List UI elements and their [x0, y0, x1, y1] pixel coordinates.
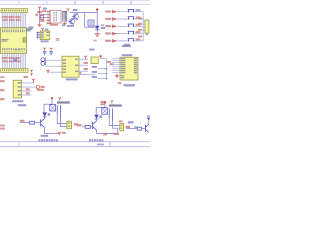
gnd red text — [62, 132, 66, 134]
J2 wire pin4 — [22, 94, 32, 96]
D8 to Q4 wire — [96, 119, 98, 121]
resistor pack U3 box — [91, 57, 98, 64]
connector J2 serial header — [13, 80, 21, 98]
D7 to Q3 wire — [44, 117, 46, 119]
U5 designator below — [41, 40, 49, 42]
relay K7 coil box — [102, 108, 108, 114]
title block tick H — [109, 142, 111, 147]
Q4 emitter wire — [95, 130, 97, 134]
transistor Q2 — [69, 19, 74, 24]
buzzer top wire — [77, 12, 97, 14]
diode D8 — [94, 115, 99, 119]
ground buzzer — [94, 34, 100, 36]
key bus vertical wire — [142, 12, 144, 41]
keys designator text — [124, 44, 130, 46]
ground Q3 emitter — [57, 132, 61, 134]
U1 top pin numbers — [2, 28, 24, 29]
VCC arrow K7 — [111, 100, 114, 103]
K7 type text — [109, 104, 122, 106]
key K4 — [128, 31, 135, 33]
U5 pin names — [41, 32, 49, 38]
U2 wire in 1 — [45, 59, 62, 61]
crystal Y1 circle B — [41, 62, 45, 66]
K7 contact wire bend 1 — [109, 117, 120, 125]
LED D2 row — [105, 17, 127, 20]
R2 to Q3 wire — [35, 122, 41, 124]
D6 label text — [101, 24, 104, 26]
net label P1 left edge — [0, 76, 5, 78]
crystal connect wire — [44, 57, 46, 65]
VCC arrow above U5 — [41, 28, 44, 31]
module label cropped — [18, 104, 26, 106]
J5 red text below — [113, 133, 119, 135]
VCC dot relay K7 — [104, 101, 106, 103]
K6 vcc wire — [51, 99, 53, 104]
Q3 emitter wire — [43, 127, 45, 133]
net text right of port — [41, 86, 45, 88]
capacitor C2 — [43, 52, 46, 56]
U1 green logo box — [23, 38, 25, 43]
reset label text blue — [43, 8, 47, 10]
buzzer bottom wire — [85, 26, 98, 28]
S1 left pin stubs — [49, 12, 50, 21]
connector J4 — [67, 121, 72, 129]
reset pin name text col — [47, 11, 52, 25]
U3 junction 3 — [106, 78, 108, 80]
U2 right pin names — [75, 59, 78, 72]
U5 left pin stubs — [38, 32, 41, 37]
DIP switch S1 body — [50, 10, 61, 23]
LED D1 row — [105, 10, 127, 13]
net labels on bottom wires row 1 — [2, 57, 21, 59]
J2 wire pin3 — [22, 90, 32, 92]
K5 label — [136, 38, 141, 40]
D7 label — [48, 113, 51, 116]
net label above J2 — [24, 76, 28, 78]
sheet border bottom line 2 — [0, 146, 150, 148]
sheet border tick B — [46, 1, 48, 4]
J3 mark below — [146, 34, 148, 35]
net label on pin3 — [26, 88, 30, 90]
resistor R3 — [85, 125, 90, 128]
wires U1 to JP2 (14 vertical) — [2, 54, 25, 69]
K4 label — [136, 31, 141, 33]
K1 label — [136, 9, 141, 11]
K6 left vertical wire — [43, 104, 45, 112]
diode D7 — [42, 112, 47, 116]
label above U4 — [122, 54, 132, 56]
U3 net text 2 — [92, 71, 97, 73]
VCC stem U3 — [100, 57, 102, 58]
transistor Q4 — [93, 121, 97, 130]
U4 net label red 1 — [107, 61, 111, 63]
U4 left pin names — [121, 58, 126, 78]
relay K6 coil box — [50, 105, 56, 111]
power symbol right of JP2 — [30, 70, 33, 75]
ground near U2 — [46, 70, 50, 73]
J3 pin stubs — [143, 22, 145, 31]
C1 left text — [35, 14, 38, 17]
key K2 — [128, 17, 135, 19]
VCC arrow K6 — [58, 97, 61, 100]
VCC stem buzzer — [96, 11, 98, 26]
S1 switch positions — [53, 12, 57, 22]
connector J3 — [145, 20, 149, 33]
eeprom U5 body — [40, 31, 50, 40]
JP2 pin numbers — [2, 69, 26, 71]
transistor Q5 — [145, 124, 148, 132]
net label P3 left edge — [0, 89, 5, 91]
connector J5 — [120, 124, 124, 131]
J2 pin names — [18, 82, 21, 95]
VCC arrow C2 — [43, 48, 46, 51]
title text left — [39, 139, 58, 141]
J2 wire pin2 — [22, 86, 37, 88]
R2 value text — [20, 120, 25, 122]
net label on pin4 — [26, 92, 30, 94]
U2 designator text below — [66, 78, 78, 80]
K2 label — [136, 17, 141, 19]
sheet border top line 1 — [0, 0, 150, 2]
VCC dot buzzer — [96, 8, 98, 10]
J5 label right — [126, 126, 130, 128]
capacitor C3 — [49, 52, 52, 56]
VCC dot relay K6 — [51, 97, 53, 99]
title block small text — [97, 144, 104, 146]
motor label text — [128, 121, 134, 123]
net label above relay K7 — [100, 101, 105, 103]
J4 inner marks — [68, 123, 70, 124]
net labels left edge bottom — [0, 125, 5, 127]
reset switch box — [40, 15, 43, 19]
sheet border tick A — [18, 1, 20, 4]
net labels on top wires row 2 — [3, 19, 21, 21]
RP1 lower pin marks — [63, 21, 67, 23]
net labels on bottom wires row 2 — [3, 60, 21, 62]
key K5 — [128, 39, 135, 41]
S1 designator text — [50, 24, 58, 26]
J2 designator text below — [12, 100, 23, 102]
resistor R1 text — [40, 20, 44, 22]
connector JP1 top header — [1, 9, 28, 13]
key K3 — [128, 24, 135, 26]
U4 input wires — [112, 59, 120, 73]
U1 top pin names — [2, 30, 24, 32]
ground RP1 — [63, 22, 67, 25]
U1 bottom pin names — [2, 48, 25, 50]
LS1 inner marks — [89, 21, 93, 22]
sheet border tick D — [102, 1, 104, 4]
title text right — [89, 139, 103, 141]
U2 wire out 1 — [79, 58, 88, 60]
VCC arrow U2 out1 — [84, 56, 87, 59]
net port arrow on J2 pin2 — [36, 86, 40, 89]
K7 left vertical wire — [95, 107, 97, 113]
net label above relay K6 — [37, 89, 44, 91]
IC U2 body — [62, 56, 79, 77]
latch U4 body — [120, 57, 138, 80]
ground reset — [38, 24, 42, 27]
U2 wire in 2 — [45, 65, 62, 67]
U1 bottom pin numbers — [2, 51, 24, 52]
Q5 base wire — [126, 128, 137, 130]
connector JP2 bottom header — [1, 69, 28, 73]
U4 designator text below — [124, 84, 135, 86]
net label out3 — [84, 68, 88, 70]
Q3 emitter run — [44, 133, 58, 135]
U4 net label red 2 — [110, 63, 114, 65]
key K1 — [128, 9, 135, 11]
LED D3 row — [105, 25, 127, 28]
MCU U1 body — [1, 28, 27, 54]
K6 coil marks — [50, 105, 55, 110]
reset designator text — [28, 26, 33, 28]
diode D6 — [95, 26, 100, 30]
sheet border top line 2 — [0, 3, 150, 5]
J5 red text below left — [103, 133, 107, 135]
Q3 designator text — [41, 135, 49, 137]
buzzer LS1 box — [88, 20, 94, 26]
VCC arrow near Q1 — [67, 8, 70, 11]
crystal Y1 circle A — [41, 58, 45, 62]
J5 red text above — [119, 120, 123, 122]
ground U4 — [115, 74, 119, 78]
K7 coil marks — [102, 108, 107, 113]
U3 wire 1 — [98, 68, 107, 70]
K6 top wire — [44, 103, 52, 105]
D9 marks — [147, 116, 150, 117]
J5 inner marks — [121, 125, 123, 126]
K7 contact wire bend 2 — [112, 121, 120, 128]
J4 label right — [74, 123, 78, 125]
LED D4 row — [105, 32, 127, 35]
K7 top wire — [96, 106, 105, 108]
Q4 emitter run — [96, 132, 117, 134]
LED D5 row — [105, 39, 127, 42]
K6 contact wire bend 1 — [57, 114, 67, 124]
wire Q1 top — [70, 12, 77, 14]
U2 wire out 3 — [79, 70, 88, 72]
reset branch wire 1 — [40, 14, 47, 16]
sheet border tick C — [74, 1, 76, 4]
JP1 pin numbers — [2, 10, 26, 12]
R4 to Q5 wire — [142, 128, 146, 130]
junction blob on bottom wires — [13, 58, 17, 62]
wires JP1 to U1 (14 vertical) — [2, 13, 25, 28]
net labels on top wires row 1 — [2, 16, 21, 18]
K7 contact pole 2 — [111, 108, 113, 121]
transistor Q3 — [41, 119, 45, 128]
U3 net text 3 — [92, 76, 97, 78]
diode D9 cropped — [147, 118, 150, 121]
faint red text left of D5 — [93, 40, 97, 42]
U1 part name text — [1, 39, 8, 40]
K6 contact wire bend 2 — [60, 118, 67, 126]
U2 left pin names — [63, 59, 66, 72]
J2 wire pin1 — [22, 82, 34, 84]
U4 right pin names — [134, 58, 137, 73]
red mark U2 bottom right — [80, 72, 82, 74]
U3 wire 3 — [98, 78, 107, 80]
transistor Q1 — [73, 14, 78, 19]
R3 value text — [77, 124, 82, 126]
U3 wire 2 — [98, 73, 107, 75]
net label P4 left edge — [0, 98, 5, 100]
Q4 base wire — [82, 126, 85, 128]
C1 value text — [42, 10, 46, 12]
net label P2 left edge — [0, 80, 5, 82]
K6 type text — [57, 101, 70, 103]
sheet border tick E — [130, 1, 132, 4]
J5 wire up — [117, 129, 119, 134]
reset vertical wire — [39, 10, 41, 24]
label above U3 — [89, 49, 95, 51]
U3 junction 2 — [106, 73, 108, 75]
VCC arrow on J2 pin1 — [32, 79, 35, 83]
K7 vcc wire — [104, 103, 106, 107]
label above U4 outside — [122, 45, 131, 47]
U3 net text 1 — [92, 66, 97, 68]
R label near Q1 — [73, 9, 78, 11]
VCC dot near U3 — [100, 55, 102, 57]
VCC arrow reset circuit — [38, 7, 41, 11]
reset branch wire 2 — [40, 17, 47, 19]
sheet border bottom line 1 — [0, 141, 150, 143]
D8 label — [99, 115, 102, 118]
U3 junction 1 — [106, 68, 108, 70]
title block tick F — [18, 142, 20, 147]
K7 contact pole 1 — [108, 108, 110, 117]
label above U5 — [45, 29, 49, 31]
buzzer left vertical wire — [84, 13, 86, 28]
Q2 designator text — [67, 25, 74, 27]
J3 net labels — [138, 18, 142, 38]
U2 bottom wire — [79, 74, 95, 76]
crystal label text — [56, 38, 60, 39]
Q5 collector wire — [148, 119, 150, 125]
U2 wire out 2 — [79, 64, 88, 66]
wire plus marks — [134, 126, 137, 128]
resistor R4 — [137, 127, 141, 130]
U5 pin dots — [37, 32, 38, 39]
Q3 base wire left — [20, 122, 30, 124]
K6 contact pole 2 — [59, 105, 61, 118]
K3 label — [136, 24, 141, 26]
U2 wire in 3 — [50, 71, 62, 73]
net label out2 — [84, 62, 88, 64]
R3 to Q4 wire — [90, 126, 92, 128]
U3 bus vertical — [105, 59, 107, 80]
VCC arrow C3 — [50, 48, 53, 51]
net label under U4 — [118, 82, 122, 84]
RP1 designator text — [62, 24, 65, 26]
resistor network RP1 — [62, 11, 67, 20]
K6 contact pole 1 — [56, 105, 58, 114]
net labels right of U1 — [26, 28, 32, 29]
capacitor C1 plates — [37, 11, 41, 12]
resistor R2 — [29, 121, 34, 124]
